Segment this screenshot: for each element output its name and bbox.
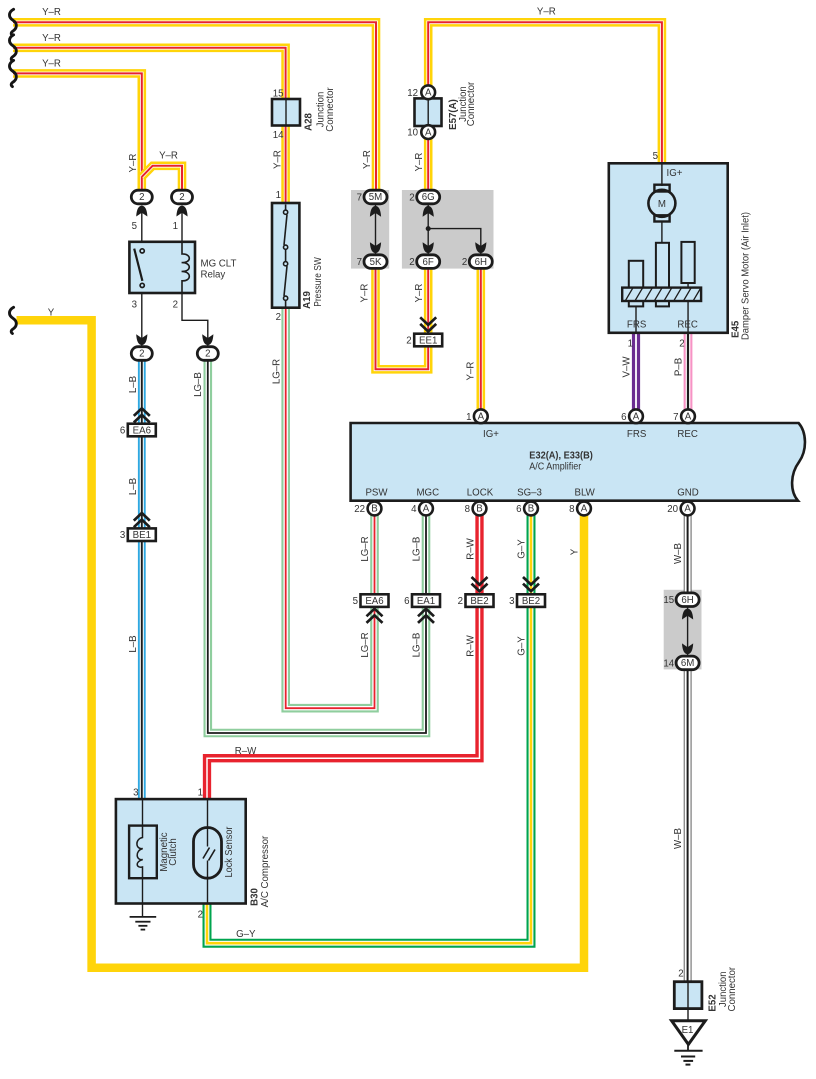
wire Y-R 6F to ground EE1 — [424, 268, 433, 340]
wire Y-R fusebox feed 3 (to relay) — [13, 73, 142, 190]
amp pin 7 connector A — [681, 409, 695, 423]
svg-text:LG–R: LG–R — [360, 536, 371, 561]
svg-text:Y–R: Y–R — [42, 59, 61, 70]
svg-text:6: 6 — [120, 426, 125, 437]
svg-text:6H: 6H — [475, 257, 487, 268]
arrow into relay pin1 connector — [176, 206, 187, 217]
svg-text:4: 4 — [411, 504, 417, 515]
wire E1 to earth — [687, 1044, 689, 1051]
svg-text:Y–R: Y–R — [362, 150, 373, 169]
svg-text:V–W: V–W — [622, 356, 633, 378]
svg-text:B: B — [476, 504, 482, 515]
harness break symbol wire 2 — [9, 35, 16, 61]
svg-text:5: 5 — [353, 596, 358, 607]
svg-text:R–W: R–W — [466, 634, 477, 656]
svg-text:B: B — [528, 504, 534, 515]
svg-text:Y: Y — [570, 548, 581, 555]
svg-text:Y–R: Y–R — [537, 6, 556, 17]
svg-text:W–B: W–B — [673, 828, 684, 849]
svg-text:B: B — [371, 504, 377, 515]
svg-text:2: 2 — [276, 312, 281, 323]
svg-text:FRS: FRS — [627, 429, 647, 440]
svg-text:MGC: MGC — [416, 488, 439, 499]
E45 FRS lead — [635, 306, 637, 332]
junction connector A28 — [272, 99, 300, 126]
svg-text:2: 2 — [462, 257, 467, 268]
harness break symbol Y wire — [9, 307, 16, 333]
svg-text:1: 1 — [466, 412, 471, 423]
svg-text:A/C Compressor: A/C Compressor — [260, 835, 271, 907]
svg-text:1: 1 — [173, 221, 178, 232]
svg-text:EA6: EA6 — [365, 596, 383, 607]
junction dot 6G splice — [426, 226, 431, 231]
connector BE2 box first — [458, 594, 494, 607]
connector shading box 5M/5K — [351, 190, 389, 269]
wire Y-R 6H to amplifier IG+ — [476, 268, 485, 410]
svg-text:6G: 6G — [422, 192, 435, 203]
chevron below EA6 — [367, 609, 383, 623]
connector 5M oval — [364, 190, 387, 204]
pressure switch contacts — [284, 205, 288, 307]
svg-text:A: A — [685, 412, 692, 423]
svg-text:A: A — [684, 504, 691, 515]
svg-text:W–B: W–B — [673, 543, 684, 564]
A/C amplifier E32/E33 box — [351, 423, 805, 501]
wire relay pin 5 lead — [141, 208, 143, 243]
svg-text:IG+: IG+ — [667, 168, 683, 179]
ground below magnetic clutch — [130, 904, 157, 930]
svg-text:Y–R: Y–R — [273, 150, 284, 169]
svg-text:A: A — [581, 504, 588, 515]
relay coil — [182, 243, 190, 293]
connector 6H oval right — [676, 593, 699, 607]
harness break symbol wire 3 — [9, 60, 16, 86]
arrow below right 6H — [682, 609, 693, 620]
svg-text:BE2: BE2 — [522, 596, 540, 607]
svg-text:1: 1 — [198, 788, 203, 799]
chevron into BE2 first — [472, 577, 488, 591]
connector 2 oval relay pin2 bottom — [197, 347, 218, 361]
svg-text:Y–R: Y–R — [42, 7, 61, 18]
svg-text:2: 2 — [409, 193, 414, 204]
svg-text:6F: 6F — [423, 257, 434, 268]
svg-text:BE1: BE1 — [133, 530, 151, 541]
svg-text:E32(A), E33(B): E32(A), E33(B) — [529, 451, 593, 462]
svg-text:MG CLT: MG CLT — [201, 259, 237, 270]
connector shading box 6G/6F/6H — [402, 190, 494, 269]
wire R-W amplifier LOCK to compressor lock sensor — [207, 515, 480, 800]
svg-text:A: A — [633, 412, 640, 423]
svg-text:7: 7 — [357, 257, 362, 268]
lock sensor symbol — [194, 800, 222, 903]
svg-text:6: 6 — [516, 504, 521, 515]
svg-text:G–Y: G–Y — [236, 929, 256, 940]
svg-text:Connector: Connector — [727, 966, 738, 1011]
svg-text:5: 5 — [132, 221, 137, 232]
svg-text:A: A — [425, 88, 432, 99]
svg-text:SG–3: SG–3 — [517, 488, 542, 499]
earth symbol below E1 — [674, 1051, 702, 1065]
svg-text:14: 14 — [663, 658, 674, 669]
svg-text:3: 3 — [133, 788, 138, 799]
svg-text:B30: B30 — [249, 888, 260, 906]
amp pin 8 connector B — [473, 502, 487, 516]
svg-text:IG+: IG+ — [483, 429, 499, 440]
pressure switch A19 box — [272, 203, 299, 308]
svg-text:G–Y: G–Y — [517, 636, 528, 656]
svg-text:Y–R: Y–R — [360, 284, 371, 303]
wire Y blower feed to amplifier BLW — [17, 320, 585, 968]
svg-text:2: 2 — [173, 299, 178, 310]
arrow into relay pin5 connector — [136, 206, 147, 217]
svg-text:6M: 6M — [681, 658, 694, 669]
connector EA6 box — [353, 594, 389, 607]
svg-text:6: 6 — [621, 412, 626, 423]
svg-text:Relay: Relay — [201, 270, 226, 281]
connector EA6 left box — [120, 424, 156, 437]
wire W-B amplifier GND to 6H — [684, 515, 692, 594]
svg-text:LG–B: LG–B — [193, 372, 204, 397]
ground point E1 triangle — [672, 1021, 706, 1045]
svg-text:2: 2 — [458, 596, 463, 607]
svg-text:1: 1 — [628, 339, 633, 350]
E57 pin 12 connector A — [421, 85, 435, 99]
svg-text:G–Y: G–Y — [517, 539, 528, 559]
svg-text:Y–R: Y–R — [466, 362, 477, 381]
svg-text:REC: REC — [677, 429, 697, 440]
svg-text:R–W: R–W — [235, 746, 257, 757]
svg-text:2: 2 — [139, 192, 144, 203]
svg-text:12: 12 — [407, 88, 418, 99]
E57 pin 10 connector A — [421, 125, 435, 139]
wire L-B relay to magnetic clutch — [138, 359, 146, 800]
arrow into relay pin2 oval — [202, 334, 213, 345]
svg-text:10: 10 — [407, 128, 418, 139]
svg-text:3: 3 — [509, 596, 514, 607]
ground splice EE1 box — [406, 334, 442, 347]
svg-text:Connector: Connector — [325, 86, 336, 131]
arrow above 5K — [370, 242, 381, 253]
amp pin 6 connector B — [524, 502, 538, 516]
svg-text:Pressure SW: Pressure SW — [313, 257, 324, 307]
svg-text:2: 2 — [205, 349, 210, 360]
wire Y-R A28 to pressure switch A19 — [281, 125, 290, 204]
svg-text:L–B: L–B — [128, 478, 139, 495]
amp pin 4 connector A — [419, 502, 433, 516]
svg-text:A/C Amplifier: A/C Amplifier — [529, 461, 582, 472]
amp pin 20 connector A — [681, 502, 695, 516]
wire G-Y amplifier SG-3 to compressor — [207, 515, 531, 943]
svg-text:REC: REC — [677, 320, 697, 331]
connector 2 oval relay pin1 top — [172, 190, 193, 204]
junction connector E52 — [674, 982, 702, 1009]
wire V-W servo FRS to amplifier — [632, 332, 640, 410]
chevron below EA1 — [418, 609, 434, 623]
svg-text:Clutch: Clutch — [168, 838, 179, 865]
harness break symbol wire 1 — [9, 9, 16, 35]
wire Y-R fusebox feed 2 (to A28) — [13, 48, 286, 100]
svg-text:2: 2 — [678, 968, 683, 979]
svg-text:1: 1 — [276, 190, 281, 201]
amp pin 1 connector A — [474, 409, 488, 423]
junction connector E57(A) — [415, 98, 442, 126]
svg-text:15: 15 — [273, 89, 284, 100]
svg-text:LOCK: LOCK — [467, 488, 494, 499]
svg-text:6: 6 — [404, 596, 409, 607]
relay switch contact — [134, 249, 144, 288]
svg-text:LG–B: LG–B — [412, 537, 423, 562]
svg-text:Y–R: Y–R — [159, 151, 178, 162]
svg-text:2: 2 — [679, 339, 684, 350]
svg-text:R–W: R–W — [466, 537, 477, 559]
svg-text:A: A — [423, 504, 430, 515]
connector 6H oval — [469, 255, 492, 269]
svg-text:2: 2 — [179, 192, 184, 203]
svg-text:L–B: L–B — [128, 635, 139, 652]
svg-text:7: 7 — [673, 412, 678, 423]
svg-text:Y–R: Y–R — [414, 153, 425, 172]
svg-text:LG–R: LG–R — [360, 632, 371, 657]
svg-text:FRS: FRS — [627, 320, 647, 331]
svg-text:20: 20 — [667, 504, 678, 515]
svg-text:2: 2 — [198, 910, 203, 921]
svg-text:6H: 6H — [681, 595, 693, 606]
svg-text:5K: 5K — [370, 257, 382, 268]
connector 6F oval — [417, 255, 440, 269]
svg-text:8: 8 — [465, 504, 470, 515]
svg-text:BLW: BLW — [575, 488, 596, 499]
chevron into BE1 — [134, 513, 150, 527]
connector 2 oval relay pin3 bottom — [131, 347, 152, 361]
wire Y-R fusebox feed 1 (to 5M) — [13, 22, 376, 190]
E45 hatched wiper strip — [622, 286, 702, 303]
wire 5M to 5K — [375, 204, 377, 256]
wire 6G splice tree — [428, 204, 481, 256]
connector 6M oval — [676, 656, 699, 670]
A/C compressor B30 box — [116, 799, 246, 903]
wire relay pin 3 lead — [141, 293, 143, 347]
svg-text:Y–R: Y–R — [128, 154, 139, 173]
svg-text:Damper Servo Motor (Air Inlet): Damper Servo Motor (Air Inlet) — [741, 212, 752, 340]
wire Y-R 5K to ground EE1 — [376, 268, 429, 369]
E45 motor to wiper lead — [661, 221, 663, 243]
svg-text:22: 22 — [354, 504, 365, 515]
arrow above 6M — [682, 643, 693, 654]
connector 6G oval — [417, 190, 440, 204]
svg-text:5M: 5M — [369, 192, 382, 203]
svg-text:GND: GND — [677, 488, 699, 499]
wire P-B servo REC to amplifier — [684, 332, 693, 410]
connector 5K oval — [364, 255, 387, 269]
connector BE2 box second — [509, 594, 545, 607]
amp pin 22 connector B — [368, 502, 382, 516]
wire W-B 6M to E52 — [684, 669, 692, 983]
svg-text:A19: A19 — [302, 291, 313, 309]
svg-text:LG–B: LG–B — [412, 633, 423, 658]
wire LG-B relay to amplifier MGC — [208, 359, 426, 733]
svg-text:Y–R: Y–R — [42, 33, 61, 44]
E45 REC bar lead — [687, 283, 689, 288]
svg-text:A: A — [425, 127, 432, 138]
connector BE1 box — [120, 528, 156, 541]
arrow into relay pin3 oval — [136, 334, 147, 345]
damper servo motor E45 box — [609, 163, 728, 332]
svg-text:Lock Sensor: Lock Sensor — [224, 826, 235, 878]
wire relay pin 1 lead — [181, 208, 183, 243]
svg-text:2: 2 — [409, 257, 414, 268]
svg-text:E1: E1 — [682, 1025, 694, 1036]
chevron into EA6 left — [134, 408, 150, 422]
wire LG-R pressure switch to amplifier PSW — [286, 307, 375, 708]
svg-text:EA1: EA1 — [417, 596, 435, 607]
svg-text:M: M — [658, 199, 666, 210]
E45 motor M — [648, 185, 675, 222]
svg-text:5: 5 — [653, 151, 658, 162]
svg-text:EE1: EE1 — [419, 335, 437, 346]
svg-text:15: 15 — [663, 595, 674, 606]
arrow below 6G — [423, 206, 434, 217]
amp pin 8 connector A — [577, 502, 591, 516]
svg-text:LG–R: LG–R — [272, 359, 283, 384]
svg-text:7: 7 — [357, 193, 362, 204]
svg-text:P–B: P–B — [674, 358, 685, 376]
arrow below 5M — [370, 206, 381, 217]
E45 REC lead — [687, 301, 689, 332]
wire 6H to 6M — [687, 606, 689, 657]
connector 2 oval relay pin5 top — [131, 190, 152, 204]
arrow above 6H — [475, 242, 486, 253]
svg-text:14: 14 — [273, 130, 284, 141]
svg-text:8: 8 — [569, 504, 574, 515]
chevron into BE2 second — [523, 577, 539, 591]
connector EA1 box — [404, 594, 440, 607]
svg-text:A28: A28 — [304, 113, 315, 131]
svg-text:PSW: PSW — [365, 488, 388, 499]
chevron into EE1 — [420, 317, 436, 331]
wire E52 to E1 ground — [687, 1008, 689, 1021]
svg-text:L–B: L–B — [128, 376, 139, 393]
E45 position contact bars — [629, 242, 695, 307]
wire relay pin 2 lead — [182, 293, 208, 347]
svg-text:2: 2 — [139, 349, 144, 360]
svg-text:EA6: EA6 — [133, 425, 151, 436]
E45 IG+ lead — [661, 164, 663, 186]
svg-text:BE2: BE2 — [470, 596, 488, 607]
svg-text:Connector: Connector — [466, 81, 477, 126]
relay MG CLT box — [129, 242, 195, 293]
svg-text:A: A — [478, 412, 485, 423]
svg-text:3: 3 — [120, 530, 125, 541]
magnetic clutch symbol — [129, 800, 157, 903]
svg-text:Y–R: Y–R — [414, 284, 425, 303]
wire Y-R E57 to damper servo E45 — [428, 22, 662, 164]
wire Y-R branch to relay pin 1 — [142, 166, 182, 191]
amp pin 6 connector A — [629, 409, 643, 423]
svg-text:3: 3 — [132, 299, 137, 310]
svg-text:2: 2 — [406, 336, 411, 347]
connector shading box 6H/6M — [664, 590, 702, 670]
arrow above 6F — [423, 242, 434, 253]
wire Y-R E57 to 6G — [424, 139, 433, 192]
svg-text:Y: Y — [48, 308, 55, 319]
